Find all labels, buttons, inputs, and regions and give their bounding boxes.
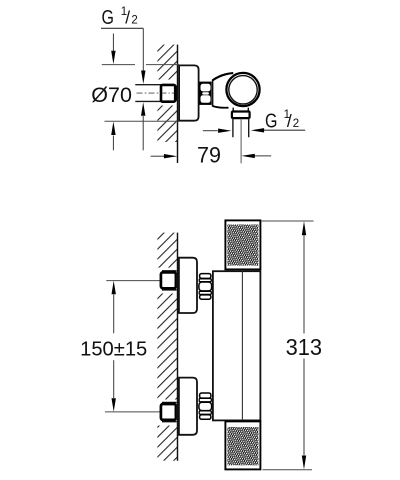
body top profile xyxy=(213,73,234,80)
svg-text:2: 2 xyxy=(131,15,137,27)
escutcheon (wall flange, side view) xyxy=(179,65,199,120)
supply hex nut xyxy=(161,85,177,102)
svg-text:2: 2 xyxy=(293,118,299,130)
wall hatch (upper segment) xyxy=(157,45,177,80)
svg-text:150±15: 150±15 xyxy=(80,338,147,360)
Ø70 upper arrow xyxy=(111,34,115,65)
150 extension line bottom xyxy=(105,411,176,413)
G1/2 leader (down arrow to supply pipe top) xyxy=(141,28,145,84)
wall face line xyxy=(177,233,179,461)
valve body (front) xyxy=(213,271,261,420)
bottom wall nut xyxy=(161,404,176,420)
313 dim line upper + up arrow xyxy=(302,221,306,333)
wall hatch segment above top nut xyxy=(157,233,177,268)
outlet G1/2 callout left arrow xyxy=(203,129,232,133)
supply pipe xyxy=(135,85,161,102)
wall hatch segment below bottom nut xyxy=(157,426,177,461)
dim 79 right segment (arrow at outlet axis) xyxy=(241,154,271,158)
outlet nut band xyxy=(232,112,250,119)
svg-text:313: 313 xyxy=(286,333,322,360)
Ø70 lower arrow xyxy=(111,122,115,151)
svg-text:G: G xyxy=(265,110,277,132)
supply pipe axis (dash-dot) xyxy=(137,92,177,94)
wall hatch segment between nuts xyxy=(157,294,177,400)
outlet G1/2 callout right arrow + underline xyxy=(251,128,306,132)
150 dim line upper part + up arrow xyxy=(112,281,116,333)
svg-text:/: / xyxy=(287,111,292,131)
top wall nut xyxy=(161,272,176,288)
svg-text:/: / xyxy=(125,8,130,28)
body inner highlight line xyxy=(241,271,243,420)
bottom wall nut face edge xyxy=(176,405,178,419)
svg-text:G: G xyxy=(102,6,114,28)
bottom wall nut stubs xyxy=(162,403,177,422)
Ø70 extension line bottom xyxy=(105,120,180,122)
top wall nut face edge xyxy=(176,274,178,288)
bottom escutcheon (front) xyxy=(179,378,197,435)
313 dim line lower + down arrow xyxy=(302,359,306,470)
top wall nut stubs xyxy=(162,271,177,290)
svg-text:79: 79 xyxy=(197,142,221,167)
Ø70 extension line top xyxy=(102,64,179,66)
supply pipe lower arrow (points up at pipe bottom) xyxy=(141,102,145,150)
G1/2 right label xyxy=(265,109,299,132)
top knurled cap xyxy=(225,220,260,269)
union hex nut (side view) xyxy=(199,82,211,105)
150 dim line lower part + down arrow xyxy=(112,360,116,412)
top union nut (ribbed) xyxy=(199,274,212,300)
313 extension line bottom xyxy=(262,469,312,471)
top cap knurl texture xyxy=(227,225,258,266)
bottom union nut (ribbed) xyxy=(199,393,212,419)
G1/2 top-left label xyxy=(102,6,138,28)
bottom knurled cap xyxy=(225,421,260,469)
valve head inner circle xyxy=(229,76,257,104)
svg-text:Ø70: Ø70 xyxy=(91,83,132,107)
outlet neck xyxy=(233,108,248,112)
wall face line xyxy=(177,45,179,163)
bottom cap knurl texture xyxy=(227,427,258,465)
outlet pipe xyxy=(233,118,249,137)
valve body neck xyxy=(212,80,214,107)
dim 79 left segment (arrow at wall face) xyxy=(151,154,178,158)
G1/2 top-left underline xyxy=(101,27,143,29)
wall hatch (middle segment) xyxy=(157,106,177,143)
valve head outer circle xyxy=(226,73,259,106)
top escutcheon (front) xyxy=(179,258,197,313)
body bottom profile xyxy=(213,106,229,108)
outlet axis line xyxy=(240,119,242,164)
150 extension line top xyxy=(106,280,176,282)
313 extension line top xyxy=(261,220,314,222)
